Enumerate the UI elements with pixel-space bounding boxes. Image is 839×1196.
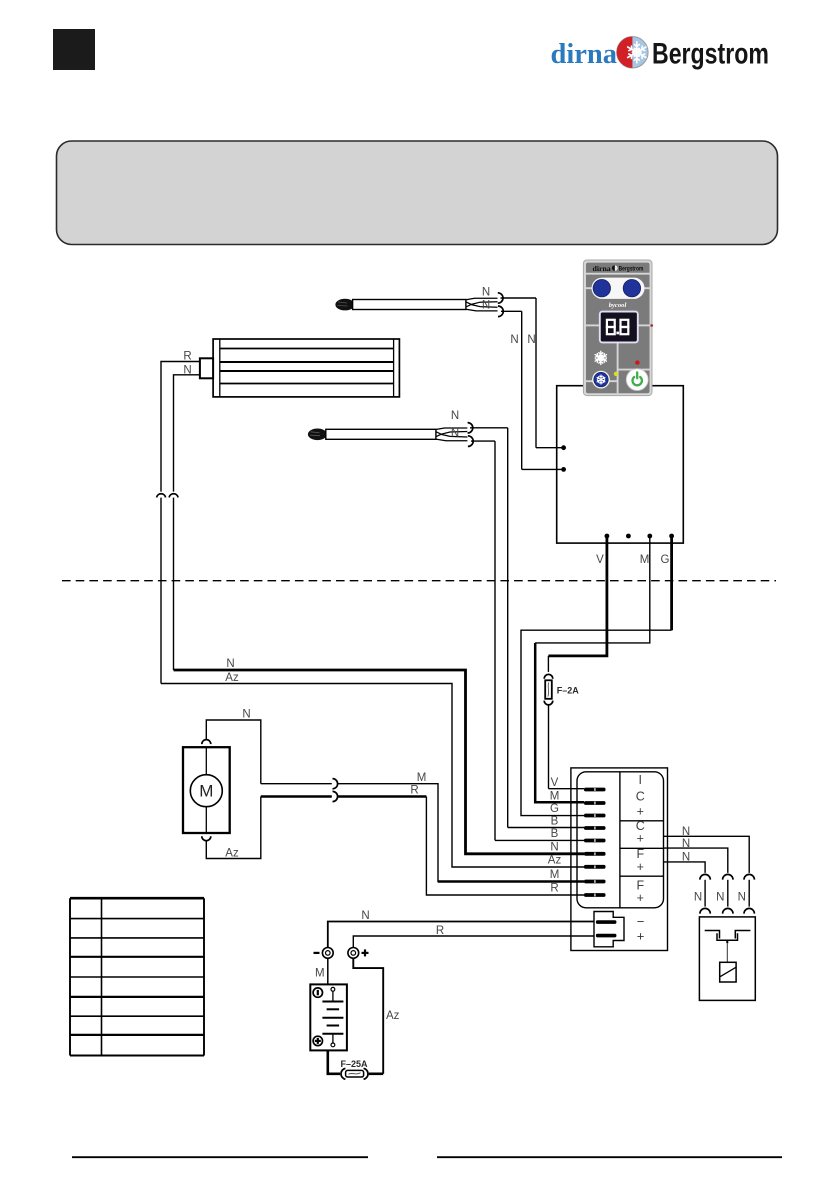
svg-text:R: R [410, 785, 418, 797]
svg-text:N: N [242, 709, 250, 721]
svg-text:−: − [637, 914, 645, 929]
svg-text:N: N [482, 287, 490, 299]
svg-text:N: N [451, 410, 459, 422]
svg-text:R: R [550, 883, 558, 895]
svg-text:M: M [315, 968, 325, 980]
svg-text:N: N [482, 300, 490, 312]
svg-text:N: N [183, 365, 191, 377]
svg-text:N: N [716, 892, 724, 904]
svg-text:I: I [639, 773, 642, 787]
svg-text:N: N [682, 838, 690, 850]
svg-text:Bergstrom: Bergstrom [652, 37, 769, 71]
svg-text:N: N [451, 427, 459, 439]
svg-text:Az: Az [386, 1010, 400, 1022]
svg-text:N: N [694, 892, 702, 904]
svg-text:V: V [551, 777, 559, 789]
svg-text:dirna: dirna [551, 39, 618, 70]
svg-text:+: + [637, 831, 644, 845]
svg-text:Bergstrom: Bergstrom [619, 266, 644, 273]
svg-text:R: R [436, 925, 444, 937]
svg-text:N: N [682, 826, 690, 838]
svg-text:+: + [637, 805, 644, 819]
svg-text:R: R [183, 351, 191, 363]
svg-text:bycool: bycool [609, 302, 627, 309]
svg-text:N: N [361, 910, 369, 922]
svg-text:N: N [510, 334, 518, 346]
svg-text:N: N [682, 851, 690, 863]
svg-text:N: N [738, 892, 746, 904]
svg-text:B: B [551, 816, 559, 828]
svg-text:+: + [637, 860, 644, 874]
svg-text:V: V [596, 554, 604, 566]
svg-text:N: N [226, 658, 234, 670]
svg-text:M: M [199, 782, 213, 801]
svg-text:B: B [551, 828, 559, 840]
svg-text:Az: Az [548, 855, 562, 867]
svg-text:M: M [640, 554, 650, 566]
svg-text:F–2A: F–2A [557, 686, 580, 696]
svg-text:M: M [550, 869, 560, 881]
svg-text:+: + [637, 891, 644, 905]
svg-text:Az: Az [225, 672, 239, 684]
svg-text:M: M [550, 791, 560, 803]
svg-text:N: N [527, 334, 535, 346]
svg-text:Az: Az [225, 848, 239, 860]
svg-text:F–25A: F–25A [341, 1059, 369, 1069]
svg-text:G: G [661, 554, 670, 566]
svg-text:N: N [550, 842, 558, 854]
svg-text:G: G [550, 803, 559, 815]
svg-text:M: M [417, 772, 427, 784]
svg-text:C: C [636, 789, 645, 803]
svg-text:+: + [637, 929, 645, 944]
svg-text:dirna: dirna [593, 264, 611, 273]
